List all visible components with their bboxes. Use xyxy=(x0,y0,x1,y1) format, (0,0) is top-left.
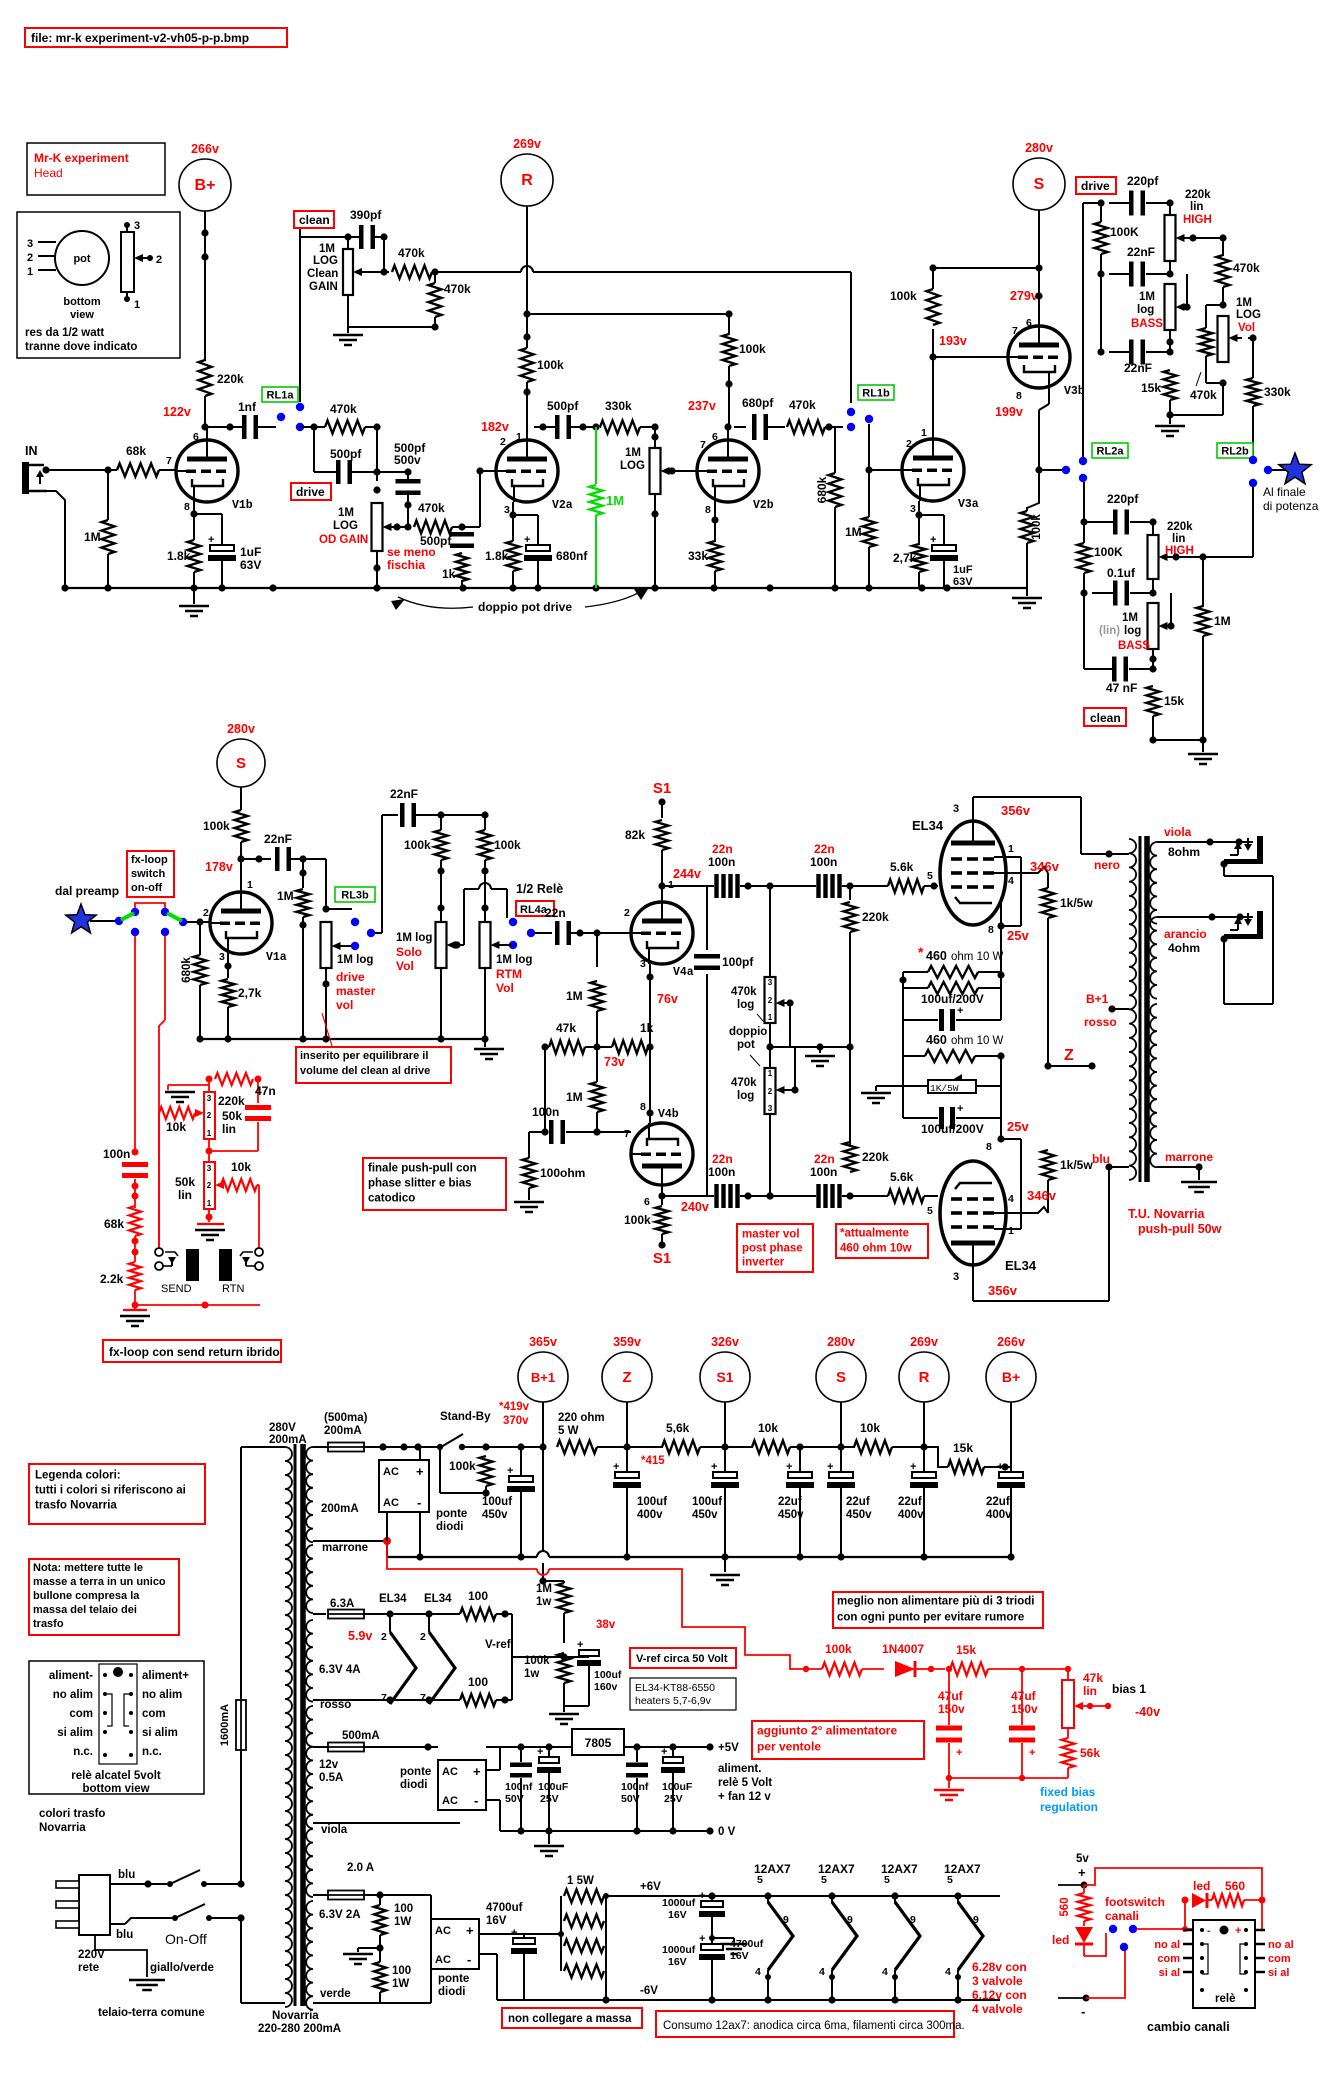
node R supply psu xyxy=(899,1352,949,1402)
svg-text:82k: 82k xyxy=(625,828,645,842)
svg-text:-: - xyxy=(1081,2004,1085,2019)
svg-text:240v: 240v xyxy=(681,1200,709,1214)
capacitor 1000uf 16V bottom xyxy=(711,1938,713,1944)
svg-text:log: log xyxy=(737,1090,754,1102)
wire V3b cathode down xyxy=(1048,388,1050,404)
svg-text:massa del telaio dei: massa del telaio dei xyxy=(33,1604,137,1616)
svg-text:view: view xyxy=(70,309,94,321)
svg-text:marrone: marrone xyxy=(322,1542,368,1554)
ground RTM xyxy=(484,1039,486,1047)
svg-text:9: 9 xyxy=(847,1914,853,1926)
fx pot 50k lin 1 xyxy=(204,1092,215,1139)
mid ground 12ax7 supply xyxy=(711,1931,713,1938)
resistor 10k supply 1 xyxy=(725,1446,753,1448)
svg-text:+: + xyxy=(524,534,530,546)
svg-text:1: 1 xyxy=(1008,1225,1014,1237)
svg-text:68k: 68k xyxy=(126,444,146,458)
svg-text:680k: 680k xyxy=(815,476,829,503)
svg-text:ponte: ponte xyxy=(436,1508,467,1520)
svg-text:ponte: ponte xyxy=(400,1766,431,1778)
svg-text:16V: 16V xyxy=(668,1909,687,1921)
svg-text:Novarria: Novarria xyxy=(272,2010,319,2022)
legend Mr-K experiment Head xyxy=(27,143,165,195)
fx 2.2k xyxy=(129,1262,141,1290)
svg-text:10k: 10k xyxy=(758,1421,778,1435)
bias resistor 100k xyxy=(822,1663,862,1676)
svg-text:Stand-By: Stand-By xyxy=(440,1411,491,1423)
svg-text:push-pull 50w: push-pull 50w xyxy=(1138,1222,1222,1236)
resistor 100k V3b cathode xyxy=(1027,470,1039,511)
svg-text:*: * xyxy=(918,944,924,960)
svg-text:4: 4 xyxy=(1008,875,1014,887)
svg-text:22n: 22n xyxy=(814,842,835,856)
svg-text:100k: 100k xyxy=(537,358,564,372)
svg-text:2: 2 xyxy=(624,907,630,919)
svg-text:1M: 1M xyxy=(845,525,862,539)
svg-text:4700uf: 4700uf xyxy=(730,1938,764,1950)
svg-text:V-ref circa 50 Volt: V-ref circa 50 Volt xyxy=(636,1653,728,1665)
svg-text:280V: 280V xyxy=(269,1422,296,1434)
svg-text:100uf/200V: 100uf/200V xyxy=(921,992,984,1006)
resistor 220k V1b plate xyxy=(199,360,212,396)
fx bottom rail xyxy=(135,1304,260,1306)
svg-text:R: R xyxy=(521,172,533,189)
led top diode xyxy=(1192,1893,1206,1908)
svg-text:1w: 1w xyxy=(536,1596,551,1608)
svg-text:22nF: 22nF xyxy=(1127,245,1155,259)
capacitor 390pf xyxy=(300,236,359,238)
svg-text:LOG: LOG xyxy=(1236,309,1261,321)
bias ground xyxy=(948,1778,950,1788)
svg-text:100n: 100n xyxy=(810,855,837,869)
label attualmente 460 xyxy=(836,1224,928,1258)
pot 220k lin HIGH clean xyxy=(1152,522,1154,535)
svg-text:V2b: V2b xyxy=(753,499,774,512)
svg-text:220 ohm: 220 ohm xyxy=(558,1412,605,1424)
ground 100ohm xyxy=(514,1201,544,1204)
fx switch green blades xyxy=(121,913,134,920)
svg-text:4: 4 xyxy=(882,1966,888,1978)
speaker jack 4ohm sleeve wire xyxy=(1220,935,1227,942)
svg-text:log: log xyxy=(1137,304,1154,316)
capacitor 22nF drive bass xyxy=(1129,340,1134,365)
svg-text:220k: 220k xyxy=(1185,189,1211,201)
node B+ supply xyxy=(179,159,231,211)
svg-text:-: - xyxy=(1207,1925,1211,1937)
capacitor 22n PI input xyxy=(535,932,552,934)
svg-text:76v: 76v xyxy=(657,992,678,1006)
capacitor 22uf 450v b xyxy=(840,1447,842,1472)
capacitor 500pf V2a out xyxy=(539,423,546,430)
jack RTN xyxy=(255,1248,263,1256)
V3a cathode 2.7k xyxy=(918,501,920,515)
svg-text:38v: 38v xyxy=(596,1619,616,1631)
svg-text:n.c.: n.c. xyxy=(142,1746,162,1758)
capacitor 100uf 400v Z xyxy=(626,1447,628,1472)
ground 460 network xyxy=(876,1085,903,1087)
relay RL1b contacts xyxy=(847,408,855,416)
svg-text:fischia: fischia xyxy=(387,558,425,572)
svg-text:100uf: 100uf xyxy=(637,1496,667,1508)
svg-text:6.28v con: 6.28v con xyxy=(972,1960,1027,1974)
svg-text:22uf: 22uf xyxy=(986,1496,1010,1508)
svg-text:relè alcatel 5volt: relè alcatel 5volt xyxy=(71,1770,161,1782)
svg-text:res da 1/2 watt: res da 1/2 watt xyxy=(25,327,104,339)
svg-text:1 5W: 1 5W xyxy=(567,1875,594,1887)
svg-text:S: S xyxy=(1034,176,1045,193)
svg-text:8: 8 xyxy=(988,924,994,936)
resistor 1M RL3b xyxy=(302,859,304,888)
relay footswitch box xyxy=(1193,1920,1255,2008)
label meglio non alimentare xyxy=(833,1592,1043,1628)
svg-text:22uf: 22uf xyxy=(846,1496,870,1508)
resistor 82k xyxy=(661,802,663,818)
pot 220k lin HIGH drive xyxy=(1169,203,1171,215)
svg-text:16V: 16V xyxy=(730,1950,749,1962)
svg-text:V2a: V2a xyxy=(552,499,573,512)
svg-text:per ventole: per ventole xyxy=(757,1740,821,1754)
svg-text:BASS: BASS xyxy=(1118,640,1150,652)
svg-text:63V: 63V xyxy=(953,576,973,588)
svg-text:1k/5w: 1k/5w xyxy=(1060,896,1093,910)
regulator 7805 xyxy=(572,1729,624,1755)
resistor 1k/5w upper xyxy=(1042,888,1055,918)
svg-text:heaters 5,7-6,9v: heaters 5,7-6,9v xyxy=(635,1695,712,1707)
svg-text:blu: blu xyxy=(118,1869,135,1881)
relay RL2a contacts xyxy=(1062,466,1070,474)
svg-text:8ohm: 8ohm xyxy=(1168,845,1200,859)
wires mains to switch xyxy=(110,1883,167,1885)
svg-text:+: + xyxy=(997,1461,1003,1473)
svg-text:bias 1: bias 1 xyxy=(1112,1682,1146,1696)
svg-text:200mA: 200mA xyxy=(269,1434,307,1446)
node V1b plate 122v xyxy=(201,423,208,430)
svg-text:S: S xyxy=(836,1369,846,1386)
svg-text:2: 2 xyxy=(420,1631,426,1643)
relay RL4a contacts xyxy=(509,918,517,926)
svg-text:9: 9 xyxy=(973,1914,979,1926)
resistor 1M 1w vref xyxy=(558,1583,571,1613)
svg-text:ohm 10 W: ohm 10 W xyxy=(951,1035,1004,1047)
resistor 1M clean out xyxy=(1202,557,1204,607)
svg-text:phase slitter e bias: phase slitter e bias xyxy=(368,1177,472,1189)
svg-text:200mA: 200mA xyxy=(324,1425,362,1437)
svg-text:280v: 280v xyxy=(1025,141,1053,155)
svg-text:vol: vol xyxy=(336,998,353,1012)
svg-text:3: 3 xyxy=(910,503,916,515)
svg-text:no al: no al xyxy=(1268,1939,1294,1951)
svg-text:500pf: 500pf xyxy=(420,534,452,548)
bias cap 47uf 150v 1 xyxy=(948,1669,950,1725)
svg-text:telaio-terra comune: telaio-terra comune xyxy=(98,2007,205,2019)
label fx-loop con send return ibrido xyxy=(103,1340,281,1362)
resistor 33k V2b cathode xyxy=(714,502,716,542)
resistor 15k drive stack xyxy=(1164,370,1177,400)
svg-text:BASS: BASS xyxy=(1131,318,1163,330)
V-ref node wires xyxy=(505,1613,512,1615)
svg-text:7: 7 xyxy=(1012,325,1018,337)
svg-text:*415: *415 xyxy=(641,1455,665,1467)
resistor 47k xyxy=(549,1041,585,1054)
svg-text:1: 1 xyxy=(207,1129,212,1138)
svg-text:rete: rete xyxy=(78,1962,99,1974)
OT primary taps xyxy=(1122,853,1129,855)
wire to drive master vol xyxy=(303,858,326,860)
triode V2b xyxy=(697,440,759,502)
svg-text:220pf: 220pf xyxy=(1107,492,1139,506)
svg-text:1M: 1M xyxy=(625,447,641,459)
svg-text:B+1: B+1 xyxy=(531,1370,555,1385)
svg-text:Vol: Vol xyxy=(496,981,514,995)
wire clean stack ground xyxy=(1153,739,1203,741)
svg-text:160v: 160v xyxy=(594,1681,618,1693)
svg-text:269v: 269v xyxy=(910,1335,938,1349)
resistor 470k to ground xyxy=(429,283,442,317)
capacitor 0.1uf clean xyxy=(1113,581,1118,606)
svg-text:100K: 100K xyxy=(1110,225,1139,239)
svg-text:470k: 470k xyxy=(398,246,425,260)
svg-text:269v: 269v xyxy=(513,137,541,151)
svg-text:100k: 100k xyxy=(890,289,917,303)
wire HIGH wiper to 470k xyxy=(1189,234,1196,241)
svg-text:+: + xyxy=(957,1005,963,1017)
svg-text:Consumo 12ax7: anodica circa 6: Consumo 12ax7: anodica circa 6ma, filame… xyxy=(663,2020,965,2032)
svg-text:1M log: 1M log xyxy=(496,954,532,966)
capacitor 100nf 50V b xyxy=(633,1743,640,1750)
wire EL34 lower cathode xyxy=(1000,1118,1002,1139)
svg-text:100n: 100n xyxy=(708,855,735,869)
svg-text:diodi: diodi xyxy=(400,1779,427,1791)
svg-text:Legenda colori:: Legenda colori: xyxy=(35,1469,121,1481)
svg-text:+: + xyxy=(1235,1925,1241,1937)
label master vol post phase inverter xyxy=(737,1224,813,1272)
svg-text:9: 9 xyxy=(910,1914,916,1926)
svg-text:1k/5w: 1k/5w xyxy=(1060,1158,1093,1172)
svg-text:+6V: +6V xyxy=(640,1881,661,1893)
svg-text:4 valvole: 4 valvole xyxy=(972,2002,1023,2016)
svg-text:6: 6 xyxy=(712,431,718,443)
wires to 12ax7 bridge xyxy=(403,1895,405,1919)
resistor 100K drive stack xyxy=(1100,203,1102,222)
svg-text:RL2b: RL2b xyxy=(1221,446,1249,458)
svg-text:ohm 10 W: ohm 10 W xyxy=(951,951,1004,963)
svg-text:giallo/verde: giallo/verde xyxy=(150,1962,214,1974)
ground vref xyxy=(564,1705,589,1707)
svg-text:100k: 100k xyxy=(494,838,521,852)
svg-text:log: log xyxy=(737,999,754,1011)
earth giallo-verde xyxy=(94,1935,96,1950)
svg-text:182v: 182v xyxy=(481,420,509,434)
svg-text:+: + xyxy=(507,1465,513,1477)
svg-text:lin: lin xyxy=(178,1188,192,1202)
svg-text:7: 7 xyxy=(420,1692,426,1704)
svg-text:RL1a: RL1a xyxy=(267,390,295,402)
svg-text:inverter: inverter xyxy=(742,1256,785,1268)
svg-text:7805: 7805 xyxy=(585,1736,612,1750)
svg-text:266v: 266v xyxy=(997,1335,1025,1349)
capacitor 100uf 450v S1 xyxy=(724,1447,726,1472)
svg-text:6.12v con: 6.12v con xyxy=(972,1988,1027,2002)
label nota masse box xyxy=(29,1559,179,1635)
wire B+ to plate resistor xyxy=(204,211,206,361)
svg-text:0 V: 0 V xyxy=(718,1826,736,1838)
resistor 100k 1w vref xyxy=(558,1653,571,1683)
node Z supply xyxy=(602,1352,652,1402)
svg-text:3: 3 xyxy=(768,1104,773,1113)
svg-text:V1b: V1b xyxy=(232,499,253,512)
svg-text:22uf: 22uf xyxy=(898,1496,922,1508)
svg-text:2: 2 xyxy=(906,438,912,450)
svg-text:280v: 280v xyxy=(227,722,255,736)
svg-text:masse a terra in un unico: masse a terra in un unico xyxy=(33,1576,166,1588)
label aggiunto alimentatore xyxy=(752,1721,924,1759)
svg-text:ponte: ponte xyxy=(438,1973,469,1985)
resistor 100k V3a plate xyxy=(927,289,940,325)
rail S to V3a xyxy=(933,267,1039,269)
svg-text:Clean: Clean xyxy=(307,268,338,280)
svg-text:bottom view: bottom view xyxy=(82,1783,149,1795)
psu bottom rail xyxy=(387,1556,537,1558)
svg-text:+: + xyxy=(613,1461,619,1473)
capacitor 100uf 160v vref xyxy=(564,1656,589,1658)
wires 12v bridge xyxy=(427,1747,429,1760)
svg-text:+: + xyxy=(786,1461,792,1473)
svg-text:lin: lin xyxy=(222,1122,236,1136)
svg-text:SEND: SEND xyxy=(161,1283,192,1295)
svg-text:+: + xyxy=(466,1923,474,1938)
svg-text:IN: IN xyxy=(25,444,38,458)
svg-text:no alim: no alim xyxy=(53,1689,93,1701)
svg-text:5: 5 xyxy=(884,1874,890,1886)
svg-text:pot: pot xyxy=(73,253,90,265)
svg-text:100k: 100k xyxy=(404,838,431,852)
svg-text:aliment.: aliment. xyxy=(718,1763,761,1775)
resistor 5,6k supply xyxy=(627,1446,663,1448)
svg-text:220k: 220k xyxy=(218,1094,245,1108)
svg-text:2,7k: 2,7k xyxy=(893,551,917,565)
svg-text:relè: relè xyxy=(1215,1993,1235,2005)
svg-text:On-Off: On-Off xyxy=(165,1931,207,1947)
svg-text:aliment+: aliment+ xyxy=(142,1670,189,1682)
relay RL1a label xyxy=(262,387,298,402)
speaker jack 4ohm xyxy=(1257,911,1263,938)
svg-text:-: - xyxy=(467,1952,471,1967)
svg-text:1M: 1M xyxy=(277,889,294,903)
svg-text:100pf: 100pf xyxy=(722,955,754,969)
svg-text:122v: 122v xyxy=(163,405,191,419)
svg-text:(500ma): (500ma) xyxy=(324,1412,368,1424)
svg-text:8: 8 xyxy=(640,1101,646,1113)
svg-text:EL34: EL34 xyxy=(1005,1258,1037,1273)
svg-text:400v: 400v xyxy=(637,1509,663,1521)
resistor 220k bias feed 2 xyxy=(844,1142,857,1172)
capacitor 100pf across PI xyxy=(706,886,708,950)
svg-text:regulation: regulation xyxy=(1040,1800,1098,1814)
svg-text:3: 3 xyxy=(768,978,773,987)
capacitor 1nf xyxy=(242,415,247,439)
svg-text:+: + xyxy=(661,1746,667,1758)
svg-text:3: 3 xyxy=(207,1094,212,1103)
resistor 100 1W top xyxy=(379,1895,381,1905)
svg-text:0.5A: 0.5A xyxy=(319,1772,343,1784)
svg-text:Mr-K experiment: Mr-K experiment xyxy=(34,151,129,165)
svg-text:12v: 12v xyxy=(319,1759,339,1771)
svg-text:330k: 330k xyxy=(605,399,632,413)
node B+ supply psu xyxy=(986,1352,1036,1402)
bridge rectifier HT xyxy=(379,1460,429,1512)
svg-text:B+: B+ xyxy=(195,177,216,194)
svg-text:400v: 400v xyxy=(986,1509,1012,1521)
fx 47n cap xyxy=(257,1079,259,1103)
svg-text:1M: 1M xyxy=(319,243,335,255)
svg-text:8: 8 xyxy=(705,504,711,516)
resistor 1M V3a grid xyxy=(863,517,876,547)
svg-text:switch: switch xyxy=(131,868,166,880)
svg-text:15k: 15k xyxy=(956,1643,976,1657)
svg-text:no al: no al xyxy=(1154,1939,1180,1951)
svg-text:470k: 470k xyxy=(418,501,445,515)
svg-text:1k: 1k xyxy=(442,567,456,581)
svg-text:460: 460 xyxy=(926,949,947,963)
star dal preamp xyxy=(66,904,96,933)
svg-text:di potenza: di potenza xyxy=(1263,499,1319,513)
resistor 100k solo 2 xyxy=(479,830,492,860)
svg-text:Solo: Solo xyxy=(396,945,422,959)
svg-text:footswitch: footswitch xyxy=(1105,1895,1165,1909)
svg-text:220k: 220k xyxy=(217,372,244,386)
svg-text:100K: 100K xyxy=(1094,545,1123,559)
svg-text:470k: 470k xyxy=(731,1077,757,1089)
resistor 68k grid stopper xyxy=(117,464,159,477)
title box xyxy=(25,28,287,47)
svg-text:1M: 1M xyxy=(1139,291,1155,303)
svg-text:Al finale: Al finale xyxy=(1263,485,1306,499)
label legenda colori box xyxy=(29,1464,205,1524)
svg-text:finale push-pull con: finale push-pull con xyxy=(368,1162,477,1174)
relay RL4a label xyxy=(516,901,554,916)
bias resistor 56k xyxy=(1067,1728,1069,1738)
svg-text:470k: 470k xyxy=(444,282,471,296)
svg-text:R: R xyxy=(919,1369,930,1386)
svg-text:Head: Head xyxy=(34,166,63,180)
svg-text:2: 2 xyxy=(207,1111,212,1120)
wire IN tip to grid xyxy=(42,466,49,473)
star al finale xyxy=(1279,453,1311,484)
svg-text:100k: 100k xyxy=(203,819,230,833)
svg-text:B+1: B+1 xyxy=(1086,992,1109,1006)
capacitor 47nF clean xyxy=(1112,657,1117,682)
rail R to both plate resistors xyxy=(527,313,729,315)
svg-text:280v: 280v xyxy=(827,1335,855,1349)
output transformer T.U. Novarria xyxy=(1129,839,1136,1180)
svg-text:S1: S1 xyxy=(653,1250,671,1267)
svg-text:+: + xyxy=(511,1927,517,1939)
resistor 100 humdinger bottom xyxy=(460,1694,496,1706)
ground clean gain xyxy=(347,327,349,333)
svg-text:V4a: V4a xyxy=(673,966,694,979)
svg-text:drive: drive xyxy=(1081,179,1110,193)
svg-text:+: + xyxy=(577,1639,583,1651)
svg-text:EL34-KT88-6550: EL34-KT88-6550 xyxy=(635,1682,715,1694)
svg-text:V3b: V3b xyxy=(1064,385,1085,398)
svg-text:22uf: 22uf xyxy=(778,1496,802,1508)
svg-text:2: 2 xyxy=(768,996,773,1005)
fx-loop switch label xyxy=(127,851,174,897)
wire B+1 down to V-ref xyxy=(542,1447,544,1551)
footswitch wire to relay xyxy=(1137,1928,1193,1930)
capacitor 1000uf 16V top xyxy=(708,1892,715,1899)
resistor 680k V1a grid xyxy=(199,922,201,955)
